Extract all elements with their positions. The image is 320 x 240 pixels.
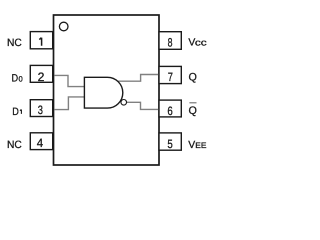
pin 1 box bbox=[30, 32, 52, 49]
svg-text:0: 0 bbox=[19, 75, 23, 84]
pin 3 box bbox=[30, 100, 52, 117]
wire Q-bar output bbox=[127, 102, 159, 109]
svg-text:3: 3 bbox=[38, 103, 43, 117]
svg-text:D: D bbox=[12, 106, 19, 118]
svg-text:7: 7 bbox=[168, 70, 173, 84]
svg-text:Q: Q bbox=[189, 105, 197, 117]
wire D1 input bbox=[54, 97, 84, 110]
pin 5 box bbox=[159, 133, 181, 150]
svg-text:6: 6 bbox=[167, 104, 173, 118]
Q-bar overline bbox=[189, 102, 196, 104]
pin 4 box bbox=[30, 133, 52, 150]
pin 6 box bbox=[159, 100, 181, 117]
pin 1 number bbox=[39, 38, 41, 46]
svg-text:2: 2 bbox=[38, 70, 45, 84]
pin 2 box bbox=[30, 65, 52, 82]
pin 1 indicator circle bbox=[59, 22, 68, 31]
svg-text:D: D bbox=[12, 73, 19, 85]
NAND output bubble bbox=[121, 100, 127, 106]
svg-text:NC: NC bbox=[7, 37, 22, 49]
svg-text:V: V bbox=[188, 140, 195, 151]
pin 7 box bbox=[159, 66, 181, 83]
svg-text:EE: EE bbox=[195, 141, 206, 150]
wire D0 input bbox=[54, 75, 84, 86]
svg-text:NC: NC bbox=[7, 139, 22, 151]
pin 8 box bbox=[159, 32, 181, 50]
svg-text:5: 5 bbox=[167, 137, 173, 151]
svg-text:cc: cc bbox=[195, 37, 207, 47]
svg-text:8: 8 bbox=[168, 36, 173, 50]
IC body U1 bbox=[54, 15, 160, 165]
wire Q output bbox=[117, 75, 158, 82]
svg-text:Q: Q bbox=[189, 72, 197, 84]
svg-text:4: 4 bbox=[37, 136, 44, 150]
NAND gate body bbox=[84, 77, 122, 108]
